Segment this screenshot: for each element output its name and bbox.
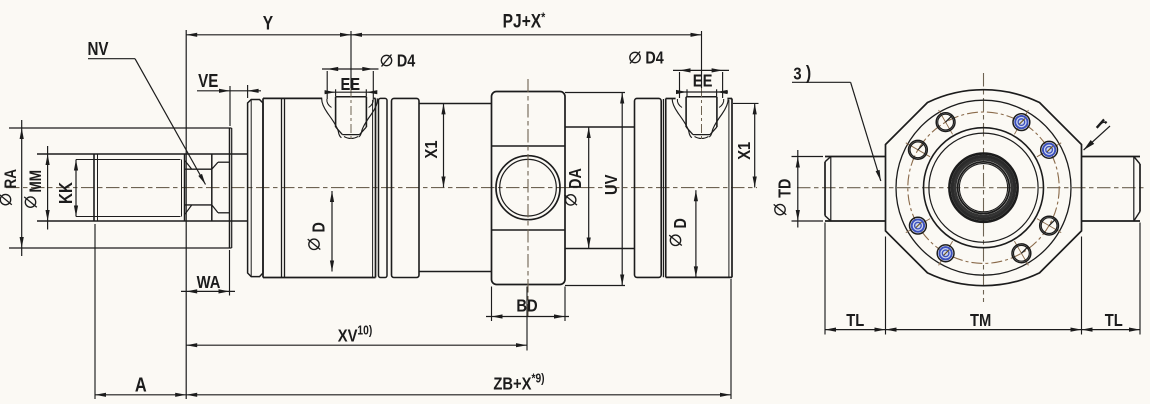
svg-text:D: D [310, 222, 329, 232]
svg-text:TM: TM [970, 311, 991, 331]
svg-text:D4: D4 [397, 52, 415, 71]
svg-text:): ) [806, 62, 811, 84]
svg-text:DA: DA [567, 168, 586, 189]
svg-text:RA: RA [2, 169, 21, 189]
svg-text:3: 3 [793, 64, 801, 84]
svg-text:X1: X1 [422, 140, 442, 158]
svg-text:MM: MM [27, 170, 46, 193]
svg-text:D: D [672, 218, 691, 228]
svg-text:TD: TD [776, 179, 795, 198]
svg-text:D4: D4 [645, 49, 663, 68]
svg-text:TL: TL [846, 311, 864, 331]
svg-text:PJ+X*: PJ+X* [503, 9, 546, 31]
svg-text:Y: Y [263, 12, 274, 34]
svg-text:KK: KK [56, 181, 77, 204]
svg-text:A: A [135, 373, 147, 396]
svg-text:VE: VE [198, 71, 218, 92]
svg-text:EE: EE [340, 75, 360, 95]
svg-text:EE: EE [693, 71, 713, 91]
svg-text:BD: BD [516, 296, 537, 316]
svg-text:WA: WA [197, 273, 221, 293]
svg-text:X1: X1 [734, 142, 754, 160]
svg-text:NV: NV [87, 39, 109, 60]
svg-text:UV: UV [602, 175, 622, 196]
svg-text:TL: TL [1105, 311, 1123, 331]
